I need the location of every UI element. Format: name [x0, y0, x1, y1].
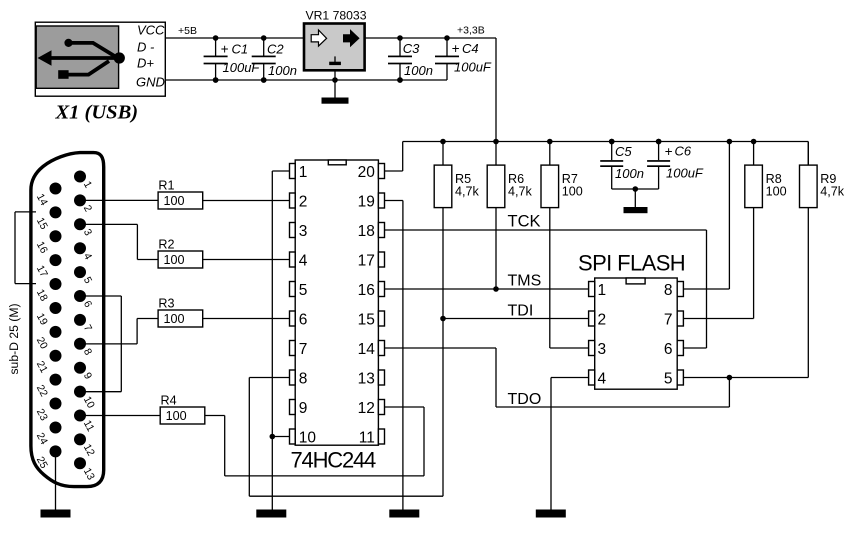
svg-text:TDI: TDI — [508, 303, 534, 320]
svg-text:D+: D+ — [137, 56, 154, 71]
svg-text:4,7k: 4,7k — [455, 184, 480, 198]
svg-text:C4: C4 — [462, 41, 479, 56]
svg-text:12: 12 — [358, 400, 375, 417]
svg-text:7: 7 — [664, 311, 673, 328]
svg-text:8: 8 — [664, 282, 673, 299]
svg-text:14: 14 — [358, 341, 376, 358]
svg-text:19: 19 — [358, 193, 375, 210]
svg-text:2: 2 — [299, 193, 308, 210]
svg-text:100uF: 100uF — [666, 165, 704, 180]
svg-text:C5: C5 — [615, 144, 632, 159]
svg-text:+: + — [452, 41, 460, 56]
svg-text:100n: 100n — [615, 166, 644, 181]
svg-text:C3: C3 — [403, 41, 420, 56]
svg-text:1: 1 — [299, 164, 308, 181]
svg-text:VR1 78033: VR1 78033 — [306, 9, 367, 23]
svg-text:C2: C2 — [267, 42, 284, 57]
svg-text:1: 1 — [598, 282, 607, 299]
svg-text:100: 100 — [166, 409, 187, 423]
svg-text:100n: 100n — [268, 63, 297, 78]
svg-text:TMS: TMS — [508, 273, 542, 290]
svg-text:100n: 100n — [404, 63, 433, 78]
svg-text:100: 100 — [164, 253, 185, 267]
svg-text:5: 5 — [299, 282, 308, 299]
svg-text:D -: D - — [137, 40, 155, 55]
svg-text:R1: R1 — [158, 179, 174, 193]
svg-text:15: 15 — [358, 311, 375, 328]
svg-text:3: 3 — [598, 341, 607, 358]
svg-text:VCC: VCC — [137, 23, 165, 38]
svg-text:8: 8 — [299, 370, 308, 387]
svg-text:9: 9 — [299, 400, 308, 417]
svg-text:5: 5 — [664, 370, 673, 387]
svg-text:100uF: 100uF — [454, 60, 492, 75]
svg-text:sub-D 25 (M): sub-D 25 (M) — [7, 303, 21, 374]
svg-text:X1 (USB): X1 (USB) — [55, 102, 139, 124]
svg-text:100: 100 — [164, 312, 185, 326]
svg-text:100: 100 — [766, 184, 787, 198]
svg-text:6: 6 — [299, 311, 308, 328]
svg-text:R4: R4 — [161, 394, 177, 408]
svg-text:11: 11 — [359, 429, 375, 446]
svg-text:+: + — [221, 42, 229, 57]
svg-text:13: 13 — [358, 370, 375, 387]
svg-text:+3,3B: +3,3B — [457, 25, 485, 37]
svg-text:100: 100 — [164, 194, 185, 208]
svg-text:GND: GND — [136, 74, 165, 89]
svg-text:16: 16 — [358, 282, 375, 299]
svg-text:R3: R3 — [158, 297, 174, 311]
svg-text:6: 6 — [664, 341, 673, 358]
svg-text:TCK: TCK — [508, 213, 541, 231]
svg-text:20: 20 — [358, 164, 376, 181]
svg-text:18: 18 — [358, 223, 375, 240]
svg-text:+: + — [665, 144, 673, 159]
svg-text:74HC244: 74HC244 — [291, 448, 377, 473]
svg-text:+5B: +5B — [178, 25, 197, 37]
svg-text:C1: C1 — [232, 42, 249, 57]
svg-text:4,7k: 4,7k — [508, 184, 533, 198]
svg-text:4: 4 — [598, 370, 607, 387]
svg-text:2: 2 — [598, 311, 607, 328]
svg-text:17: 17 — [358, 252, 375, 269]
svg-text:C6: C6 — [675, 143, 692, 158]
svg-text:100uF: 100uF — [223, 60, 261, 75]
svg-text:10: 10 — [299, 429, 317, 446]
svg-text:3: 3 — [299, 223, 308, 240]
svg-text:7: 7 — [299, 341, 308, 358]
svg-text:SPI FLASH: SPI FLASH — [578, 250, 685, 275]
svg-text:TDO: TDO — [508, 391, 542, 408]
svg-text:100: 100 — [562, 184, 583, 198]
svg-text:4,7k: 4,7k — [820, 184, 845, 198]
svg-text:R2: R2 — [158, 238, 174, 252]
svg-text:4: 4 — [299, 252, 308, 269]
